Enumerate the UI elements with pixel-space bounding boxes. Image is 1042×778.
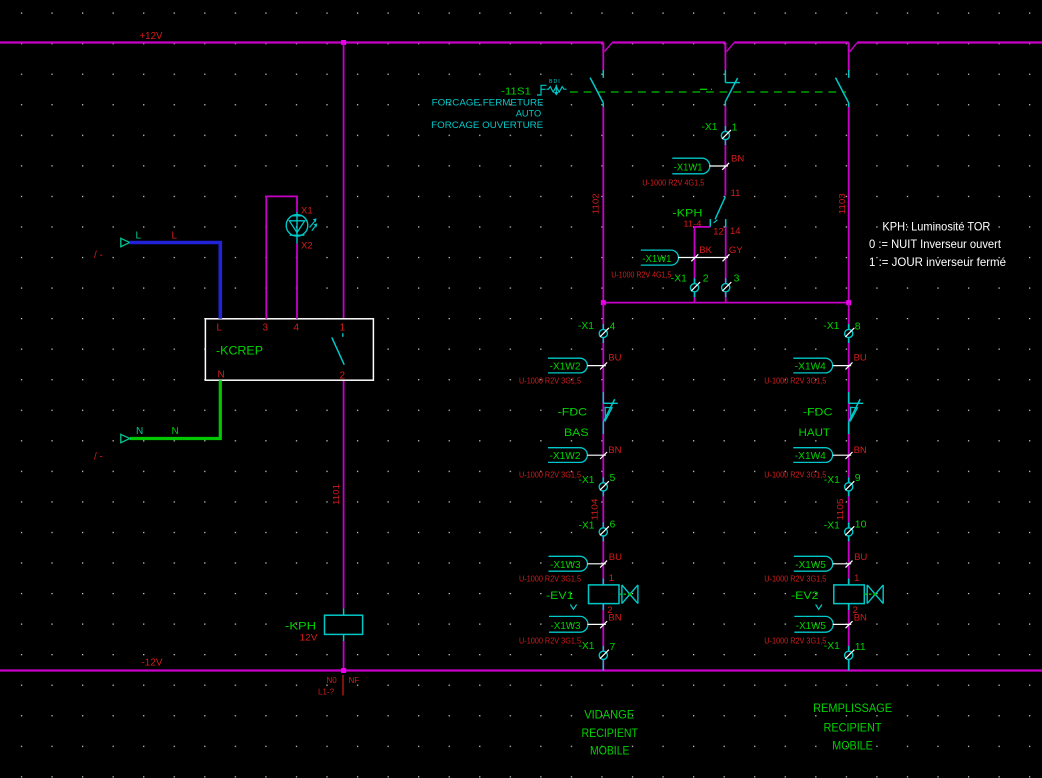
svg-text:L: L (217, 323, 223, 334)
svg-text:U-1000 R2V 3G1,5: U-1000 R2V 3G1,5 (764, 573, 826, 583)
svg-text:1102: 1102 (591, 193, 601, 214)
svg-text:1105: 1105 (835, 498, 845, 520)
svg-text:-X1: -X1 (671, 273, 687, 285)
svg-text:-EV2: -EV2 (791, 590, 819, 602)
svg-text:KPH: Luminosité TOR: KPH: Luminosité TOR (882, 220, 990, 234)
svg-text:N0: N0 (327, 676, 338, 685)
svg-text:1: 1 (732, 121, 738, 133)
wire pin12 to terminal 2 (695, 227, 711, 284)
svg-text:-X1W5: -X1W5 (796, 620, 826, 632)
svg-text:BDI: BDI (549, 79, 561, 85)
mechanical link (dashed) (570, 91, 846, 93)
wire 1101 (343, 43, 345, 319)
svg-text:U-1000 R2V 3G1,5: U-1000 R2V 3G1,5 (764, 470, 826, 480)
flag arrow N (121, 434, 130, 442)
svg-text:12V: 12V (300, 633, 319, 644)
contact -11S1 pole 2 (NC) (724, 70, 726, 83)
svg-text:BN: BN (854, 613, 867, 624)
svg-text:2: 2 (340, 371, 346, 382)
valve symbol EV2 (867, 585, 883, 604)
node 1101 junction top (341, 40, 346, 45)
svg-text:8: 8 (855, 320, 861, 332)
svg-text:L1-?: L1-? (318, 687, 335, 696)
svg-text:BU: BU (854, 552, 867, 563)
branch tap middle (724, 43, 726, 52)
svg-text:-X1W3: -X1W3 (550, 559, 581, 571)
svg-text:FORCAGE OUVERTURE: FORCAGE OUVERTURE (431, 120, 543, 131)
svg-text:1103: 1103 (837, 193, 847, 214)
svg-text:1: 1 (854, 573, 859, 584)
contact -11S1 pole 1 (NO) (602, 70, 604, 78)
svg-text:5: 5 (610, 472, 616, 484)
svg-text:-FDC: -FDC (558, 407, 588, 419)
limit switch -FDC (602, 392, 604, 403)
wire label -X1W4 (BN) (793, 448, 832, 463)
wire segment column 8-11 (848, 303, 850, 671)
svg-text:11: 11 (731, 188, 741, 199)
svg-text:-KCREP: -KCREP (216, 344, 263, 358)
contact blade inside -KCREP (342, 333, 344, 337)
svg-text:L: L (172, 231, 178, 242)
svg-text:/ -: / - (94, 452, 103, 463)
svg-text:4: 4 (610, 320, 616, 332)
svg-text:+12V: +12V (140, 31, 163, 42)
wire 1103 (848, 107, 850, 303)
wire 1103 top (848, 43, 850, 71)
svg-text:U-1000 R2V 3G1,5: U-1000 R2V 3G1,5 (519, 376, 581, 386)
svg-text:L: L (136, 231, 142, 242)
svg-text:3: 3 (263, 323, 269, 334)
svg-text:-X1W2: -X1W2 (550, 450, 581, 462)
wire 1102 top (602, 43, 604, 71)
solenoid valve -EV2 coil (848, 665, 850, 671)
wire label -X1W1 (BN) (724, 146, 726, 196)
wire label -X1W5 (BN) (794, 616, 833, 632)
svg-text:BAS: BAS (564, 427, 589, 439)
svg-text:X2: X2 (301, 241, 313, 252)
svg-text:BN: BN (608, 613, 621, 624)
svg-text:-X1: -X1 (578, 320, 594, 332)
wire N (green) (130, 380, 221, 438)
svg-text:BN: BN (608, 445, 621, 456)
node junction right (846, 300, 851, 305)
wire L (blue) (130, 243, 221, 319)
svg-text:MOBILE: MOBILE (590, 746, 630, 758)
svg-text:14: 14 (730, 226, 741, 237)
svg-text:-11S1: -11S1 (501, 85, 531, 97)
svg-text:N: N (172, 426, 179, 437)
svg-text:BN: BN (854, 445, 867, 456)
node junction left (601, 300, 606, 305)
svg-text:0 := NUIT Inverseur ouvert: 0 := NUIT Inverseur ouvert (869, 237, 1002, 251)
svg-text:RECIPIENT: RECIPIENT (582, 728, 639, 740)
svg-text:11: 11 (855, 641, 866, 653)
svg-text:U-1000 R2V 4G1,5: U-1000 R2V 4G1,5 (642, 178, 704, 188)
svg-text:BU: BU (608, 352, 621, 363)
svg-text:-FDC: -FDC (803, 407, 833, 419)
contact -11S1 pole 3 (NO) (848, 70, 850, 78)
svg-text:1104: 1104 (590, 498, 600, 520)
branch tap 1103 (848, 43, 850, 52)
+12V rail (0, 41, 603, 43)
svg-text:X1: X1 (301, 206, 313, 217)
svg-text:AUTO: AUTO (516, 109, 542, 120)
wire label -X1W3 (BN) (549, 616, 588, 632)
wire label -X1W5 (BU) (794, 556, 833, 571)
svg-text:-X1W3: -X1W3 (551, 620, 581, 632)
solenoid valve -EV1 coil (602, 665, 604, 671)
-12V rail (0, 669, 1042, 671)
svg-text:1101: 1101 (331, 484, 341, 505)
relay coil -KPH (343, 609, 345, 616)
svg-text:BU: BU (609, 552, 622, 563)
svg-text:U-1000 R2V 3G1,5: U-1000 R2V 3G1,5 (519, 470, 581, 480)
wire pin14 to terminal 3 (725, 227, 727, 284)
svg-text:NF: NF (349, 676, 360, 685)
svg-text:9: 9 (855, 472, 861, 484)
svg-text:-KPH: -KPH (285, 621, 316, 633)
wire 1102 (602, 107, 604, 303)
limit switch -FDC (848, 392, 850, 403)
svg-text:-X1: -X1 (702, 121, 718, 133)
svg-text:-EV1: -EV1 (546, 590, 574, 602)
wire label -X1W3 (BU) (549, 556, 588, 571)
svg-text:3: 3 (734, 273, 740, 285)
svg-text:1: 1 (340, 323, 346, 334)
wire segment column 4-7 (602, 303, 604, 671)
coil terminal marks N0 NF L1-? (342, 675, 344, 696)
svg-text:-X1: -X1 (579, 640, 595, 652)
svg-text:/ -: / - (94, 250, 103, 261)
wire label -X1W4 (BU) (793, 358, 832, 373)
svg-text:MOBILE: MOBILE (832, 741, 873, 753)
svg-text:-X1W5: -X1W5 (795, 559, 826, 571)
svg-text:2: 2 (703, 273, 709, 285)
junction bus wire (603, 302, 848, 304)
node 1101 junction bottom (341, 668, 346, 673)
branch tap 1102 (602, 43, 604, 52)
svg-text:BU: BU (854, 352, 867, 363)
svg-text:VIDANGE: VIDANGE (584, 710, 634, 722)
svg-text:N: N (136, 426, 143, 437)
wire label -X1W2 (BN) (548, 448, 587, 463)
wire middle top (724, 43, 726, 71)
flag arrow L (121, 238, 130, 246)
manual actuator symbol (537, 85, 547, 95)
svg-text:U-1000 R2V 3G1,5: U-1000 R2V 3G1,5 (764, 376, 826, 386)
svg-text:RECIPIENT: RECIPIENT (824, 723, 882, 735)
wire label -X1W2 (BU) (548, 358, 587, 373)
svg-text:HAUT: HAUT (799, 427, 831, 439)
svg-text:U-1000 R2V 4G1,5: U-1000 R2V 4G1,5 (611, 269, 671, 279)
detent spring symbol (547, 87, 567, 92)
svg-text:7: 7 (610, 641, 616, 653)
svg-text:-X1: -X1 (579, 474, 595, 486)
svg-text:REMPLISSAGE: REMPLISSAGE (813, 703, 892, 715)
LED lamp H1 (296, 212, 298, 244)
svg-text:1: 1 (609, 573, 614, 584)
svg-text:FORCAGE.FERMETURE: FORCAGE.FERMETURE (432, 98, 544, 109)
wire LED branch (266, 196, 297, 318)
svg-text:4: 4 (294, 323, 300, 334)
svg-text:U-1000 R2V 3G1,5: U-1000 R2V 3G1,5 (519, 635, 581, 645)
wire middle (724, 106, 726, 127)
svg-text:U-1000 R2V 3G1,5: U-1000 R2V 3G1,5 (519, 573, 581, 583)
svg-text:BN: BN (731, 153, 744, 164)
svg-text:1 := JOUR inverseur fermé: 1 := JOUR inverseur fermé (869, 255, 1006, 269)
svg-text:-12V: -12V (142, 658, 163, 669)
svg-text:-X1: -X1 (823, 320, 839, 332)
svg-text:GY: GY (729, 245, 743, 256)
relay block -KCREP (205, 319, 373, 380)
svg-text:-X1W2: -X1W2 (550, 361, 581, 373)
svg-text:-X1W1: -X1W1 (674, 162, 703, 174)
svg-text:-X1W4: -X1W4 (795, 361, 826, 373)
changeover contact -KPH 11-4 (715, 197, 725, 220)
wire label -X1W1 (BK GY) (641, 250, 679, 265)
svg-text:12: 12 (713, 226, 724, 237)
svg-text:N: N (218, 370, 225, 381)
svg-text:U-1000 R2V 3G1,5: U-1000 R2V 3G1,5 (764, 635, 826, 645)
svg-text:-X1W1: -X1W1 (642, 253, 671, 265)
valve symbol EV1 (622, 585, 638, 604)
svg-text:BK: BK (699, 245, 712, 256)
svg-text:-X1W4: -X1W4 (795, 450, 826, 462)
svg-text:-X1: -X1 (824, 474, 840, 486)
svg-text:-X1: -X1 (824, 640, 840, 652)
LED arrows (310, 221, 315, 227)
svg-text:10: 10 (855, 519, 867, 531)
svg-text:6: 6 (610, 519, 616, 531)
